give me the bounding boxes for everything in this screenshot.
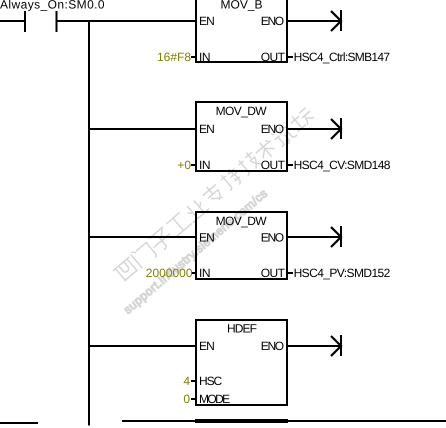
svg-text:HSC: HSC (199, 374, 222, 388)
svg-text:16#F8: 16#F8 (157, 50, 191, 64)
svg-text:Always_On:SM0.0: Always_On:SM0.0 (0, 0, 105, 12)
arrow head 4 (331, 336, 341, 356)
char 工 (165, 211, 192, 237)
pin tick OUT 2 (287, 164, 293, 166)
svg-text:MOV_DW: MOV_DW (216, 214, 268, 228)
pin tick HSC (191, 380, 196, 382)
arrow bar 4 (340, 335, 342, 356)
svg-text:OUT: OUT (261, 266, 286, 280)
box HDEF (196, 320, 287, 405)
svg-text:IN: IN (199, 50, 210, 64)
arrow bar 3 (340, 226, 342, 247)
svg-text:2000000: 2000000 (146, 266, 193, 280)
svg-text:OUT: OUT (261, 50, 286, 64)
svg-text:MODE: MODE (199, 392, 230, 406)
char 坛 (288, 105, 316, 132)
wire ENO 4 (287, 345, 340, 347)
pin tick IN 1 (191, 56, 196, 58)
pin tick IN 3 (191, 272, 196, 274)
arrow bar 1 (340, 10, 342, 31)
next box top edge (195, 419, 288, 423)
char 支 (200, 181, 225, 206)
wire branch to MOV_DW 2 EN (88, 236, 196, 238)
svg-text:+0: +0 (177, 158, 191, 172)
svg-text:ENO: ENO (261, 122, 284, 136)
svg-text:ENO: ENO (261, 339, 284, 353)
wire ENO 1 (287, 20, 340, 22)
pin tick IN 2 (191, 164, 196, 166)
wire ENO 3 (287, 236, 340, 238)
wire next network right (122, 420, 446, 422)
svg-text:MOV_B: MOV_B (220, 0, 262, 12)
svg-text:0: 0 (183, 392, 190, 406)
char 业 (182, 196, 209, 222)
svg-text:HSC4_CV:SMD148: HSC4_CV:SMD148 (294, 158, 391, 172)
svg-text:ENO: ENO (261, 231, 284, 245)
watermark (98, 104, 336, 317)
pin tick OUT 1 (287, 56, 293, 58)
arrow chevrons (331, 11, 341, 356)
wire branch to HDEF EN (88, 345, 196, 347)
svg-text:HDEF: HDEF (227, 322, 257, 336)
wire left rail to contact (0, 20, 25, 22)
wire ENO 2 (287, 128, 340, 130)
wire branch to MOV_DW 1 EN (88, 128, 196, 130)
pin tick MODE (191, 398, 196, 400)
char 论 (271, 122, 299, 149)
svg-text:MOV_DW: MOV_DW (216, 104, 268, 118)
arrow head 2 (331, 119, 341, 139)
wire next network left (0, 422, 38, 424)
char 术 (252, 136, 279, 163)
svg-text:HSC4_Ctrl:SMB147: HSC4_Ctrl:SMB147 (294, 50, 391, 64)
svg-text:EN: EN (199, 231, 214, 245)
char 技 (236, 150, 262, 176)
contact left bar (24, 11, 26, 32)
char 西 (113, 257, 140, 283)
box MOV_B (196, 0, 287, 62)
svg-text:4: 4 (183, 374, 190, 388)
svg-text:EN: EN (199, 122, 214, 136)
svg-text:IN: IN (199, 266, 210, 280)
wire vertical branch (88, 20, 90, 426)
network 2 partial (0, 421, 446, 423)
char 子 (147, 226, 175, 254)
svg-text:EN: EN (199, 339, 214, 353)
char 持 (219, 166, 245, 192)
svg-text:IN: IN (199, 158, 210, 172)
network 1 ladder (0, 0, 341, 426)
box MOV_DW 2 (196, 212, 287, 279)
arrow head 1 (331, 11, 341, 31)
contact right bar (56, 11, 58, 32)
svg-text:EN: EN (199, 14, 214, 28)
svg-text:HSC4_PV:SMD152: HSC4_PV:SMD152 (294, 266, 391, 280)
pin tick OUT 3 (287, 272, 293, 274)
box MOV_DW 1 (196, 102, 287, 171)
wire contact to block EN (56, 20, 196, 22)
svg-text:ENO: ENO (261, 14, 284, 28)
arrow head 3 (331, 227, 341, 247)
char 门 (130, 241, 157, 268)
svg-text:OUT: OUT (261, 158, 286, 172)
arrow bar 2 (340, 118, 342, 139)
